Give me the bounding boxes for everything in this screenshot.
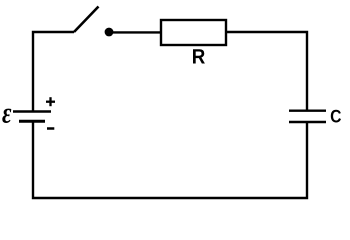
capacitor C top plate [289,109,326,111]
wire top-left horizontal (battery + terminal to switch pivot) [33,32,74,111]
resistor R (box) [161,20,226,45]
wire node-to-resistor [113,31,161,33]
switch S (open blade) [74,7,99,33]
battery bottom plate (short, -) [19,120,45,123]
minus sign [47,127,54,130]
plus sign [46,97,55,106]
capacitor C bottom plate [289,121,326,123]
label R [193,49,205,63]
wire resistor to top-right corner and down [226,32,307,110]
label EMF epsilon [2,109,11,123]
label C [331,110,341,123]
wire capacitor to bottom-right corner [33,122,307,198]
node A (switch contact dot) [105,28,114,37]
battery top plate (long, +) [13,110,51,112]
